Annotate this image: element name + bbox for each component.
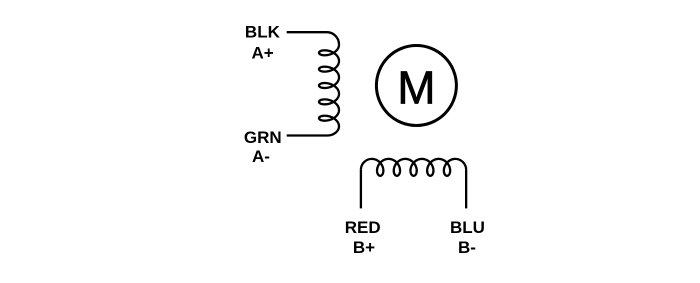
motor M1 circle: [376, 46, 456, 126]
wire BLU lead (coil to B- terminal): [465, 170, 467, 209]
svg-text:A+: A+: [251, 43, 273, 62]
svg-text:RED: RED: [345, 218, 381, 237]
wire GRN lead (coil to A- terminal): [287, 134, 327, 136]
svg-text:GRN: GRN: [244, 128, 282, 147]
svg-text:M: M: [397, 62, 435, 114]
svg-text:BLU: BLU: [450, 218, 485, 237]
svg-text:B+: B+: [353, 238, 375, 257]
wire RED lead (B+ terminal to coil): [360, 170, 362, 209]
svg-text:B-: B-: [458, 238, 476, 257]
svg-text:A-: A-: [252, 147, 270, 166]
inductor L1 phase A winding: [319, 32, 339, 135]
svg-text:BLK: BLK: [245, 23, 281, 42]
inductor L2 phase B winding: [361, 159, 466, 176]
wire BLK lead (A+ terminal to coil): [287, 31, 327, 33]
